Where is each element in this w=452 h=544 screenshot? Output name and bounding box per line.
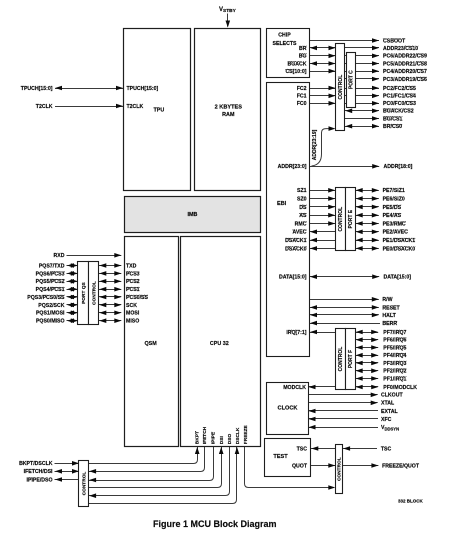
- svg-text:CLKOUT: CLKOUT: [381, 393, 403, 399]
- svg-text:PQS3/PCS0/SS: PQS3/PCS0/SS: [27, 295, 65, 301]
- svg-text:EXTAL: EXTAL: [381, 409, 398, 415]
- svg-text:TSC: TSC: [381, 446, 392, 452]
- svg-text:TSC: TSC: [297, 446, 308, 452]
- svg-text:PC6/ADDR22/CS9: PC6/ADDR22/CS9: [383, 54, 427, 60]
- svg-text:PC3/ADDR19/CS6: PC3/ADDR19/CS6: [383, 77, 427, 83]
- svg-text:PE3/RMC: PE3/RMC: [383, 221, 406, 227]
- svg-text:PQS2/SCK: PQS2/SCK: [38, 303, 64, 309]
- svg-text:BERR: BERR: [382, 321, 397, 327]
- svg-text:AVEC: AVEC: [292, 230, 306, 236]
- svg-text:PE1/DSACK1: PE1/DSACK1: [383, 238, 416, 244]
- svg-text:CSBOOT: CSBOOT: [383, 38, 406, 44]
- svg-text:IFETCH/DSI: IFETCH/DSI: [24, 469, 53, 475]
- svg-text:PORT C: PORT C: [349, 70, 355, 89]
- svg-text:BR: BR: [299, 46, 307, 52]
- svg-text:CONTROL: CONTROL: [338, 207, 344, 232]
- svg-text:PQS0/MISO: PQS0/MISO: [36, 319, 65, 325]
- svg-text:BKPT: BKPT: [194, 431, 200, 444]
- svg-text:XFC: XFC: [381, 417, 392, 423]
- svg-text:DS: DS: [299, 205, 307, 211]
- svg-text:IPIPE: IPIPE: [211, 431, 217, 444]
- svg-text:PCS1: PCS1: [126, 287, 140, 293]
- svg-text:CONTROL: CONTROL: [91, 281, 97, 305]
- svg-text:VDDSYN: VDDSYN: [381, 425, 399, 431]
- svg-text:PORT QS: PORT QS: [81, 282, 87, 304]
- svg-text:Figure 1 MCU Block Diagram: Figure 1 MCU Block Diagram: [153, 519, 277, 529]
- svg-text:PQS7/TXD: PQS7/TXD: [39, 263, 65, 269]
- svg-text:PF0/MODCLK: PF0/MODCLK: [383, 385, 417, 391]
- svg-text:TPUCH[15:0]: TPUCH[15:0]: [127, 86, 159, 92]
- svg-text:CS[10:0]: CS[10:0]: [285, 69, 306, 75]
- svg-text:T2CLK: T2CLK: [127, 104, 144, 110]
- svg-text:T2CLK: T2CLK: [36, 104, 53, 110]
- svg-text:RXD: RXD: [54, 253, 65, 259]
- svg-text:SELECTS: SELECTS: [273, 41, 297, 47]
- svg-text:PE2/AVEC: PE2/AVEC: [383, 230, 409, 236]
- svg-text:SZ0: SZ0: [297, 197, 307, 203]
- svg-text:FREEZE: FREEZE: [243, 424, 249, 444]
- svg-text:PF4/IRQ4: PF4/IRQ4: [383, 353, 406, 359]
- svg-text:PC2/FC2/CS5: PC2/FC2/CS5: [383, 86, 416, 92]
- svg-text:PF5/IRQ5: PF5/IRQ5: [383, 345, 406, 351]
- svg-text:PE4/AS: PE4/AS: [383, 213, 402, 219]
- svg-text:PC1/FC1/CS4: PC1/FC1/CS4: [383, 94, 416, 100]
- svg-text:CONTROL: CONTROL: [338, 347, 344, 372]
- svg-text:SCK: SCK: [126, 303, 137, 309]
- svg-text:DSO: DSO: [227, 434, 233, 445]
- svg-text:IPIPE/DSO: IPIPE/DSO: [27, 477, 53, 483]
- svg-text:MISO: MISO: [126, 319, 139, 325]
- svg-text:FC2: FC2: [297, 86, 307, 92]
- svg-text:DATA[15:0]: DATA[15:0]: [384, 275, 412, 281]
- svg-text:BR/CS0: BR/CS0: [383, 124, 402, 130]
- svg-text:CPU 32: CPU 32: [210, 341, 229, 347]
- svg-text:PF1/IRQ1: PF1/IRQ1: [383, 376, 406, 382]
- svg-text:EBI: EBI: [277, 201, 287, 207]
- svg-text:DATA[15:0]: DATA[15:0]: [279, 275, 307, 281]
- svg-text:TPUCH[15:0]: TPUCH[15:0]: [21, 86, 53, 92]
- svg-text:FC0: FC0: [297, 101, 307, 107]
- svg-text:PF2/IRQ2: PF2/IRQ2: [383, 369, 406, 375]
- svg-text:PE6/SIZ0: PE6/SIZ0: [383, 197, 405, 203]
- svg-text:RAM: RAM: [222, 112, 235, 118]
- svg-text:TXD: TXD: [126, 263, 137, 269]
- svg-text:QSM: QSM: [144, 341, 157, 347]
- svg-text:PQS1/MOSI: PQS1/MOSI: [36, 311, 65, 317]
- svg-text:PQS4/PCS1: PQS4/PCS1: [36, 287, 65, 293]
- svg-text:TPU: TPU: [154, 108, 165, 114]
- svg-text:CONTROL: CONTROL: [338, 75, 344, 100]
- svg-text:ADDR[18:0]: ADDR[18:0]: [384, 164, 413, 170]
- svg-text:PE5/DS: PE5/DS: [383, 205, 402, 211]
- svg-text:BKPT/DSCLK: BKPT/DSCLK: [19, 461, 53, 467]
- svg-text:PF6/IRQ6: PF6/IRQ6: [383, 338, 406, 344]
- svg-text:PQS5/PCS2: PQS5/PCS2: [36, 279, 65, 285]
- svg-text:PCS2: PCS2: [126, 279, 140, 285]
- svg-text:BGACK: BGACK: [287, 61, 306, 67]
- svg-text:PORT E: PORT E: [348, 209, 354, 228]
- svg-text:DSI: DSI: [219, 436, 225, 445]
- svg-text:DSACK1: DSACK1: [285, 238, 306, 244]
- svg-text:BG/CS1: BG/CS1: [383, 116, 402, 122]
- svg-text:PCS0/SS: PCS0/SS: [126, 295, 148, 301]
- svg-text:R/W: R/W: [382, 297, 392, 303]
- svg-text:PC5/ADDR21/CS8: PC5/ADDR21/CS8: [383, 61, 427, 67]
- svg-text:BGACK/CS2: BGACK/CS2: [383, 109, 414, 115]
- svg-text:FC1: FC1: [297, 94, 307, 100]
- svg-text:AS: AS: [299, 213, 307, 219]
- svg-text:PF7/IRQ7: PF7/IRQ7: [383, 330, 406, 336]
- svg-text:CONTROL: CONTROL: [337, 457, 343, 481]
- svg-text:MOSI: MOSI: [126, 311, 140, 317]
- svg-text:MODCLK: MODCLK: [283, 385, 306, 391]
- svg-text:ADDR[23:0]: ADDR[23:0]: [278, 164, 307, 170]
- svg-text:RESET: RESET: [382, 305, 400, 311]
- svg-text:CHIP: CHIP: [278, 33, 291, 39]
- svg-text:IRQ[7:1]: IRQ[7:1]: [286, 330, 306, 336]
- svg-text:PC0/FC0/CS3: PC0/FC0/CS3: [383, 101, 416, 107]
- svg-text:IMB: IMB: [188, 212, 198, 218]
- svg-text:PQS6/PCS3: PQS6/PCS3: [36, 271, 65, 277]
- svg-text:PE0/DSACK0: PE0/DSACK0: [383, 246, 416, 252]
- svg-text:CLOCK: CLOCK: [278, 405, 298, 411]
- svg-text:RMC: RMC: [295, 221, 307, 227]
- svg-text:HALT: HALT: [382, 313, 396, 319]
- svg-text:XTAL: XTAL: [381, 401, 395, 407]
- svg-text:BG: BG: [299, 53, 307, 59]
- svg-text:PORT F: PORT F: [348, 350, 354, 368]
- svg-text:PF3/IRQ3: PF3/IRQ3: [383, 361, 406, 367]
- svg-text:FREEZE/QUOT: FREEZE/QUOT: [382, 463, 420, 469]
- svg-text:ADDR[23:19]: ADDR[23:19]: [312, 129, 318, 160]
- svg-text:PE7/SIZ1: PE7/SIZ1: [383, 188, 405, 194]
- svg-text:TEST: TEST: [273, 454, 288, 460]
- svg-text:SZ1: SZ1: [297, 188, 307, 194]
- svg-text:2 KBYTES: 2 KBYTES: [215, 105, 243, 111]
- svg-text:CONTROL: CONTROL: [82, 472, 88, 496]
- svg-text:PC4/ADDR20/CS7: PC4/ADDR20/CS7: [383, 69, 427, 75]
- svg-text:332 BLOCK: 332 BLOCK: [398, 499, 424, 504]
- svg-text:QUOT: QUOT: [292, 463, 308, 469]
- svg-text:DSCLK: DSCLK: [235, 427, 241, 444]
- svg-text:IFETCH: IFETCH: [202, 426, 208, 444]
- svg-text:ADDR23/CS10: ADDR23/CS10: [383, 46, 418, 52]
- svg-text:DSACK0: DSACK0: [285, 246, 306, 252]
- svg-text:PCS3: PCS3: [126, 271, 140, 277]
